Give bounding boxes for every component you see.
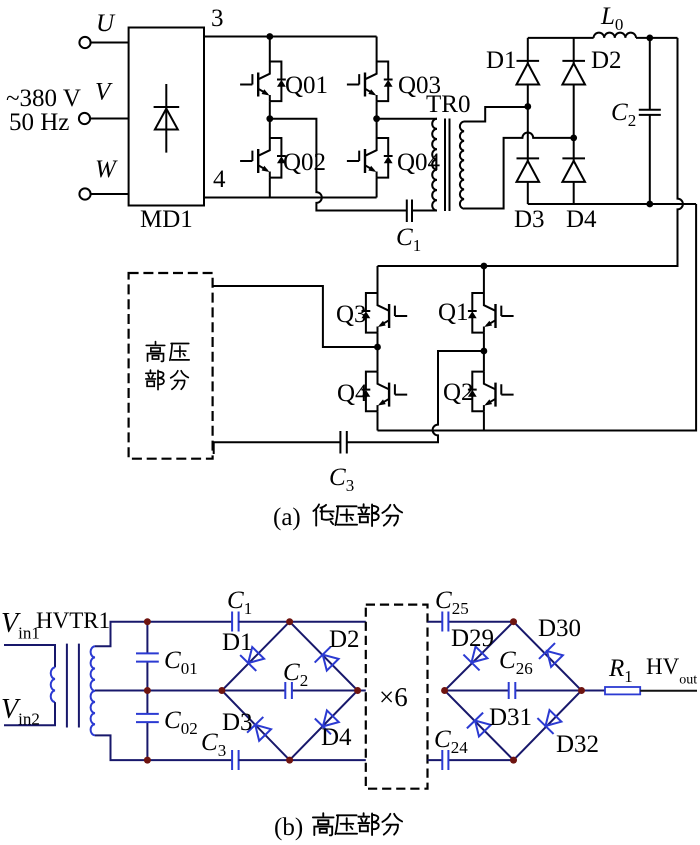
svg-text:HVTR1: HVTR1 — [36, 608, 110, 633]
wire center tap rail — [95, 690, 222, 692]
svg-text:D1: D1 — [222, 629, 253, 656]
wire Q3-Q4 — [377, 333, 379, 372]
wire right vertex to R1 — [582, 690, 606, 692]
wire secondary bottom lead — [95, 735, 232, 760]
transformer TR0 primary winding — [432, 119, 437, 211]
wire Q01-Q02 — [269, 101, 271, 138]
wire C1b to top vertex — [239, 621, 366, 623]
diode D1b — [240, 645, 266, 671]
node dot Q1 top — [481, 263, 488, 270]
svg-text:Q02: Q02 — [283, 149, 326, 176]
wire Q1-Q2 — [483, 333, 485, 372]
wire Q1/Q2 mid to C3 with hop — [347, 351, 484, 442]
diode D2 — [562, 61, 585, 85]
capacitor C25 — [442, 612, 448, 632]
transformer HVTR1 primary winding — [51, 667, 55, 702]
wire Q2 emitter leg — [483, 411, 485, 430]
svg-text:D31: D31 — [489, 704, 532, 731]
terminal U — [79, 37, 90, 48]
transistor Q01 — [240, 62, 286, 102]
diode D2b — [315, 647, 341, 673]
svg-text:D29: D29 — [451, 625, 494, 652]
diode D1 — [517, 61, 540, 85]
wire Vin1 lead — [4, 645, 55, 667]
node dot Q01/Q02 mid — [266, 115, 273, 122]
svg-text:W: W — [95, 156, 118, 183]
wire right rail with hop down to H-bridge — [378, 38, 683, 266]
caption (b) hanzi 高压部分 — [313, 813, 402, 835]
wire bottom bus MD1 to Q04 — [204, 197, 377, 199]
capacitor C02 — [136, 691, 159, 761]
dashed box text 高压 — [146, 342, 189, 390]
diode D3b — [247, 717, 273, 743]
transistor Q03 — [347, 62, 393, 102]
wire W to MD1 — [90, 193, 128, 195]
caption (a) hanzi 低压部分 — [313, 504, 333, 525]
svg-text:D3: D3 — [222, 709, 253, 736]
svg-text:D4: D4 — [566, 206, 597, 233]
svg-text:Q4: Q4 — [337, 380, 368, 407]
wire mid node to C1 with hop — [270, 119, 407, 211]
svg-text:×6: ×6 — [379, 682, 408, 712]
svg-text:Q01: Q01 — [285, 72, 328, 99]
capacitor C1b — [232, 612, 239, 632]
svg-text:TR0: TR0 — [426, 91, 470, 118]
wire TR0 secondary top to D1 node — [464, 107, 528, 122]
transistor Q1 — [468, 293, 514, 333]
wire L0 to right corner — [636, 37, 678, 39]
diamond 1 edges — [222, 622, 358, 760]
svg-text:D30: D30 — [538, 615, 581, 642]
capacitor C26 — [445, 682, 582, 699]
transistor Q2 — [468, 372, 514, 412]
svg-text:3: 3 — [211, 5, 224, 32]
wire Vin2 lead — [4, 702, 55, 725]
capacitor C1 — [407, 200, 412, 223]
capacitor C2 — [639, 38, 661, 204]
transistor Q02 — [240, 138, 286, 178]
wire box to Q3/Q4 mid — [213, 286, 378, 347]
wire R1 to HV out — [640, 690, 697, 692]
wire Q02 emitter leg — [269, 178, 271, 198]
dashed box HV part — [129, 273, 213, 459]
transistor Q4 — [362, 372, 408, 412]
wire U to MD1 — [90, 42, 128, 44]
wire TR0 secondary bottom to D4 node with hop — [464, 133, 574, 209]
inductor L0 — [594, 33, 636, 38]
svg-text:Q3: Q3 — [336, 301, 367, 328]
svg-text:D4: D4 — [321, 724, 352, 751]
svg-text:D2: D2 — [591, 47, 622, 74]
svg-text:4: 4 — [213, 166, 226, 193]
wire top bus MD1 to Q03 — [204, 36, 377, 38]
wire far right rail down — [378, 204, 697, 431]
node dot Q03/Q04 mid — [373, 115, 380, 122]
wire top rail to L0 — [528, 37, 594, 39]
wire C3b to bottom vertex — [239, 759, 366, 761]
node dots part b — [144, 618, 585, 763]
node dot Q3/Q4 mid — [374, 344, 381, 351]
dashed box x6 — [366, 605, 428, 789]
svg-text:Q2: Q2 — [443, 379, 474, 406]
wire C1 to TR0 primary bottom — [412, 210, 437, 212]
wire Q03-Q04 — [376, 101, 378, 138]
svg-text:U: U — [96, 10, 116, 37]
transformer TR0 core — [445, 119, 450, 212]
svg-text:D1: D1 — [486, 47, 517, 74]
svg-text:(b): (b) — [274, 814, 303, 841]
wire bottom rail D3 to far right — [528, 203, 696, 205]
wire Q03 collector leg — [376, 37, 378, 62]
svg-text:Q1: Q1 — [438, 299, 469, 326]
capacitor C2b — [222, 682, 366, 699]
svg-text:Q04: Q04 — [397, 149, 441, 176]
transformer HVTR1 core — [67, 644, 79, 728]
wire D1/D3 leg — [527, 38, 529, 204]
svg-text:(a): (a) — [273, 504, 301, 531]
wire Q04 emitter leg — [376, 178, 378, 198]
terminal W — [79, 188, 90, 199]
diode D30 — [539, 643, 565, 669]
dashed box text 部分 — [146, 370, 164, 390]
svg-text:MD1: MD1 — [140, 206, 193, 233]
diode D3 — [517, 158, 540, 182]
wire Q03/Q04 mid to TR0 primary top — [377, 118, 437, 120]
transistor Q3 — [362, 293, 408, 333]
transistor Q04 — [347, 138, 393, 178]
wire V to MD1 — [90, 118, 129, 120]
svg-text:D2: D2 — [329, 626, 360, 653]
wire Q01 collector leg — [269, 37, 271, 62]
svg-text:50 Hz: 50 Hz — [9, 109, 69, 136]
wire C24 — [428, 759, 514, 761]
wire secondary top lead — [95, 622, 232, 647]
svg-text:D3: D3 — [514, 206, 545, 233]
node dot Q1/Q2 mid — [481, 348, 488, 355]
wire C3 to box — [214, 441, 341, 454]
diode D4 — [562, 158, 585, 182]
diode D4b — [315, 708, 341, 734]
diode D29 — [463, 644, 489, 670]
capacitor C01 — [136, 622, 159, 691]
capacitor C3b — [232, 750, 239, 770]
wire Q3 collector leg — [377, 266, 379, 293]
transformer TR0 secondary winding — [460, 122, 464, 209]
diode D32 — [537, 708, 563, 734]
wire Q4 emitter leg — [377, 411, 379, 430]
node dot C2 top — [646, 35, 653, 42]
diode inside MD1 — [154, 84, 180, 153]
resistor R1 — [605, 687, 640, 694]
wire D2/D4 leg — [573, 38, 575, 204]
node dot C2 bottom — [646, 201, 653, 208]
node dot D1 mid — [524, 103, 531, 110]
node dot D4 mid — [570, 135, 577, 142]
wire C25 — [428, 621, 514, 623]
caption (a) — [273, 504, 402, 531]
transformer HVTR1 secondary winding — [91, 646, 95, 735]
svg-text:~380 V: ~380 V — [6, 85, 81, 112]
svg-text:D32: D32 — [556, 731, 599, 758]
diamond 2 edges — [445, 622, 582, 760]
wire Q1 collector leg — [483, 266, 485, 293]
node dot Q01 top — [266, 33, 273, 40]
capacitor C3 — [340, 431, 346, 454]
rectifier MD1 box — [129, 28, 204, 206]
capacitor C24 — [442, 750, 448, 770]
diode D31 — [467, 713, 493, 739]
terminal V — [79, 113, 90, 124]
